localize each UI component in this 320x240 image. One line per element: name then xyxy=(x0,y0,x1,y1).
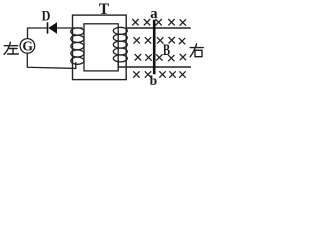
diode D xyxy=(48,22,58,33)
field cross row 4 xyxy=(133,71,186,77)
top rail wire xyxy=(126,27,190,29)
wire: G top to diode xyxy=(28,28,47,39)
wire: primary coil bottom to G bottom xyxy=(27,53,76,68)
label 右 (right) xyxy=(190,44,203,57)
field cross row 1 xyxy=(132,19,186,26)
transformer core outer rect xyxy=(73,15,127,80)
svg-text:a: a xyxy=(150,6,158,22)
field cross row 2 xyxy=(134,37,186,44)
svg-text:D: D xyxy=(42,9,51,25)
bottom rail wire xyxy=(118,60,191,67)
svg-text:b: b xyxy=(150,73,158,88)
galvanometer G xyxy=(20,39,35,54)
primary coil xyxy=(71,28,84,64)
wire: diode to primary coil top xyxy=(57,27,83,29)
secondary coil xyxy=(113,27,127,62)
conductor ab xyxy=(153,20,156,74)
field cross row 3 xyxy=(135,54,186,61)
label 左 (left) xyxy=(4,42,18,54)
svg-text:G: G xyxy=(22,39,33,54)
transformer core inner rect xyxy=(84,24,118,71)
